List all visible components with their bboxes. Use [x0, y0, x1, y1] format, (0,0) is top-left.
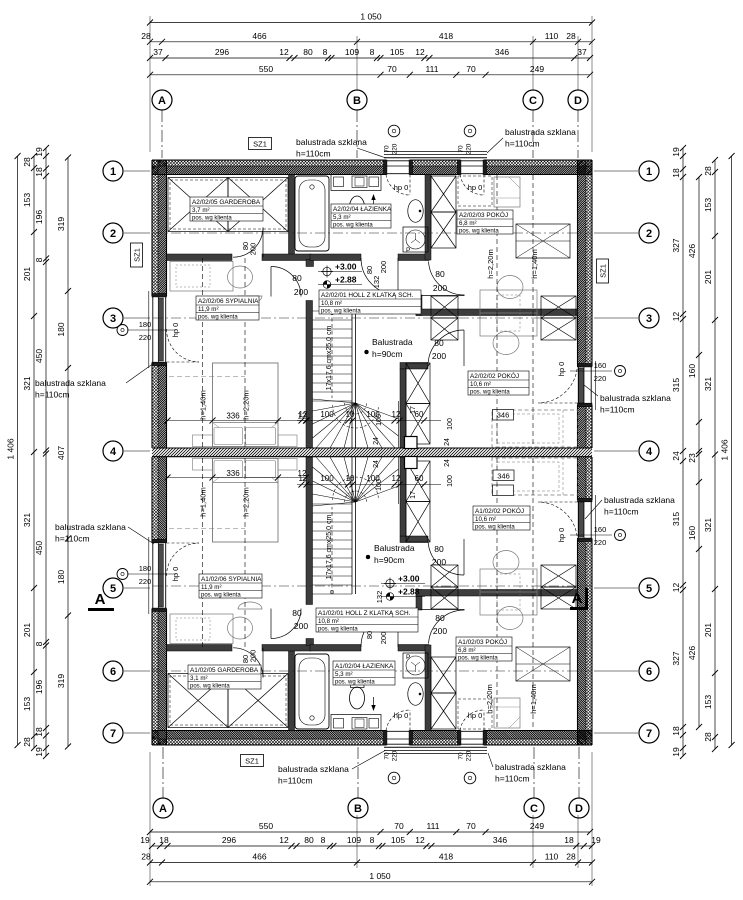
svg-text:220: 220 — [466, 143, 473, 154]
svg-text:70: 70 — [384, 752, 391, 760]
svg-text:18: 18 — [671, 726, 681, 736]
svg-text:3,7 m²: 3,7 m² — [192, 207, 210, 214]
wall H2 below bathroom(l) — [262, 254, 311, 261]
roof line x=533 upper — [532, 175, 534, 447]
right col A — [682, 148, 684, 756]
door D0 garderoba leaf+arc — [232, 227, 262, 257]
svg-text:10,6 m²: 10,6 m² — [475, 516, 496, 523]
label A2/02/06 SYPIALNIA — [196, 296, 259, 320]
win marker O2 bottom — [464, 772, 476, 784]
bed sypialnia + nightstands — [213, 363, 279, 447]
svg-text:D: D — [574, 95, 582, 107]
svg-text:70: 70 — [458, 752, 465, 760]
svg-text:80: 80 — [292, 273, 302, 283]
svg-text:8: 8 — [370, 835, 375, 845]
svg-text:24: 24 — [373, 437, 380, 445]
roof line x=497 upper — [496, 175, 498, 447]
svg-text:296: 296 — [215, 47, 229, 57]
svg-text:418: 418 — [439, 852, 453, 862]
wall H4 hall/room02 — [400, 363, 428, 370]
axis 3 line — [153, 317, 591, 319]
right door swing — [538, 364, 578, 403]
bottom extension lines — [149, 752, 151, 886]
unit A1 mirrored geometry — [149, 457, 596, 753]
svg-text:A: A — [159, 803, 167, 815]
svg-text:24: 24 — [671, 451, 681, 461]
bottom dim row 1 — [150, 831, 590, 833]
party wall pilaster upper — [405, 437, 418, 449]
svg-text:pos. wg klienta: pos. wg klienta — [470, 390, 510, 396]
svg-text:550: 550 — [259, 821, 273, 831]
top dim row 2 — [150, 41, 592, 43]
svg-text:12: 12 — [671, 312, 681, 322]
svg-text:SZ1: SZ1 — [599, 264, 608, 278]
svg-text:321: 321 — [703, 518, 713, 532]
left door swing — [167, 329, 200, 362]
svg-text:B: B — [354, 803, 362, 815]
svg-text:28: 28 — [141, 31, 151, 41]
exterior left wall (upper) — [152, 160, 158, 296]
svg-text:346: 346 — [497, 411, 510, 420]
svg-text:70: 70 — [458, 145, 465, 153]
svg-text:80: 80 — [434, 544, 444, 554]
svg-text:4: 4 — [646, 446, 653, 458]
room02 wardrobe right X — [541, 296, 576, 318]
svg-text:A2/02/06 SYPIALNIA: A2/02/06 SYPIALNIA — [198, 298, 259, 305]
svg-text:5,3 m²: 5,3 m² — [333, 214, 351, 221]
svg-text:100: 100 — [376, 414, 383, 426]
svg-text:pos. wg klienta: pos. wg klienta — [201, 593, 241, 599]
label A2/02/03 POKOJ — [457, 210, 513, 234]
svg-text:balustrada szklana: balustrada szklana — [495, 762, 566, 772]
label A1/02/04 LAZIENKA — [333, 661, 395, 685]
label A2/02/04 LAZIENKA — [331, 204, 391, 228]
svg-text:balustrada szklana: balustrada szklana — [604, 495, 675, 505]
svg-text:160: 160 — [687, 526, 697, 540]
svg-text:hp 0: hp 0 — [394, 711, 409, 720]
svg-text:60: 60 — [415, 474, 424, 483]
svg-text:pos. wg klienta: pos. wg klienta — [458, 656, 498, 662]
window O1 top — [386, 160, 410, 175]
svg-text:+3.00: +3.00 — [398, 574, 420, 584]
svg-text:426: 426 — [687, 646, 697, 660]
svg-text:pos. wg klienta: pos. wg klienta — [321, 309, 361, 315]
svg-text:336: 336 — [226, 469, 240, 478]
roof line x=497 lower — [496, 458, 498, 730]
wall V3 stair/room02 — [400, 369, 406, 448]
svg-text:153: 153 — [703, 198, 713, 212]
svg-text:19: 19 — [34, 747, 44, 757]
svg-text:28: 28 — [703, 732, 713, 742]
svg-text:450: 450 — [34, 349, 44, 363]
svg-text:315: 315 — [671, 512, 681, 526]
svg-text:11,9 m²: 11,9 m² — [201, 584, 222, 591]
svg-text:80: 80 — [435, 269, 445, 279]
svg-text:80: 80 — [365, 631, 374, 639]
svg-text:17x17,6 cmx25,0 cm: 17x17,6 cmx25,0 cm — [326, 326, 333, 391]
svg-text:550: 550 — [259, 64, 273, 74]
svg-text:80: 80 — [435, 613, 445, 623]
svg-text:466: 466 — [252, 852, 266, 862]
axis bubble D top — [568, 90, 588, 110]
room03 tall wardrobe X — [431, 176, 456, 212]
svg-text:1 406: 1 406 — [720, 439, 730, 461]
svg-text:pos. wg klienta: pos. wg klienta — [459, 229, 499, 235]
svg-text:pos. wg klienta: pos. wg klienta — [198, 315, 238, 321]
win marker O2 top — [464, 125, 476, 137]
svg-text:327: 327 — [671, 238, 681, 252]
svg-text:h=110cm: h=110cm — [296, 149, 331, 159]
svg-text:132: 132 — [372, 276, 381, 289]
svg-text:426: 426 — [687, 244, 697, 258]
svg-text:pos. wg klienta: pos. wg klienta — [335, 680, 375, 686]
svg-text:Balustrada: Balustrada — [374, 543, 415, 553]
bottom dim row 2 — [152, 845, 592, 847]
svg-text:160: 160 — [687, 364, 697, 378]
svg-text:5: 5 — [110, 583, 116, 595]
label A1/02/01 HOLL — [316, 608, 418, 632]
balcony balustrade lines (top) — [384, 151, 487, 153]
svg-text:346: 346 — [495, 47, 509, 57]
svg-text:12: 12 — [298, 412, 307, 421]
svg-text:hp 0: hp 0 — [557, 362, 566, 377]
svg-text:105: 105 — [391, 835, 405, 845]
svg-text:220: 220 — [392, 750, 399, 761]
top dim row 3 — [150, 57, 590, 59]
svg-text:18: 18 — [34, 167, 44, 177]
window O1 swing — [386, 175, 410, 196]
axis bubble 4 left — [103, 441, 123, 461]
svg-text:2: 2 — [646, 228, 652, 240]
svg-text:110: 110 — [545, 31, 559, 41]
axis bubble 5 right — [639, 578, 659, 598]
room03 dashed closet — [458, 176, 492, 206]
axis bubble 2 right — [639, 223, 659, 243]
svg-text:h=110cm: h=110cm — [600, 405, 635, 415]
svg-text:5: 5 — [646, 583, 652, 595]
svg-text:SZ1: SZ1 — [245, 757, 259, 766]
svg-text:70: 70 — [384, 145, 391, 153]
svg-text:pos. wg klienta: pos. wg klienta — [475, 525, 515, 531]
svg-text:A2/02/05 GARDEROBA: A2/02/05 GARDEROBA — [192, 199, 261, 206]
svg-text:28: 28 — [566, 31, 576, 41]
svg-text:220: 220 — [594, 374, 607, 383]
svg-text:18: 18 — [564, 835, 574, 845]
svg-text:201: 201 — [22, 623, 32, 637]
svg-text:201: 201 — [703, 270, 713, 284]
svg-text:12: 12 — [415, 835, 425, 845]
exterior right wall (lower) — [578, 405, 586, 448]
svg-text:h=110cm: h=110cm — [505, 139, 540, 149]
roof line x=245 lower — [244, 458, 246, 647]
svg-text:3: 3 — [110, 313, 116, 325]
svg-text:249: 249 — [530, 821, 544, 831]
top dim row 1 — [150, 22, 592, 24]
svg-text:balustrada szklana: balustrada szklana — [600, 393, 671, 403]
svg-text:pos. wg klienta: pos. wg klienta — [318, 627, 358, 633]
svg-text:12: 12 — [415, 47, 425, 57]
svg-text:80: 80 — [303, 47, 313, 57]
axis 6 line — [153, 670, 591, 672]
label A1/02/06 SYPIALNIA — [199, 574, 262, 598]
room03 wardrobe — [516, 224, 570, 258]
svg-text:P: P — [406, 247, 410, 254]
axis bubble B bottom — [348, 798, 368, 818]
axis bubble 3 left — [103, 308, 123, 328]
svg-text:105: 105 — [390, 47, 404, 57]
svg-text:+2.88: +2.88 — [335, 275, 357, 285]
svg-text:D: D — [575, 803, 583, 815]
arrow symbol — [373, 196, 375, 208]
svg-text:100: 100 — [376, 479, 383, 491]
svg-text:7: 7 — [646, 728, 652, 740]
terrace edge line right — [594, 361, 596, 410]
svg-text:Balustrada: Balustrada — [372, 337, 413, 347]
svg-text:100: 100 — [447, 475, 454, 487]
svg-text:18: 18 — [159, 835, 169, 845]
svg-text:321: 321 — [22, 376, 32, 390]
toilet — [350, 196, 365, 218]
svg-text:319: 319 — [56, 217, 66, 231]
svg-text:A2/02/02 POKÓJ: A2/02/02 POKÓJ — [470, 371, 519, 380]
svg-text:h=90cm: h=90cm — [374, 555, 404, 565]
svg-text:10,8 m²: 10,8 m² — [318, 618, 339, 625]
svg-text:200: 200 — [432, 351, 446, 361]
axis bubble 5 left — [103, 578, 123, 598]
svg-text:8: 8 — [323, 47, 328, 57]
svg-text:180: 180 — [56, 570, 66, 584]
svg-text:70: 70 — [466, 821, 476, 831]
svg-text:10,6 m²: 10,6 m² — [470, 381, 491, 388]
svg-text:h=2,20m: h=2,20m — [486, 249, 495, 278]
svg-text:37: 37 — [153, 47, 163, 57]
svg-text:19: 19 — [671, 747, 681, 757]
SZ1 bottom — [241, 755, 264, 767]
axis bubble 3 right — [639, 308, 659, 328]
svg-text:180: 180 — [139, 320, 152, 329]
svg-text:4: 4 — [110, 446, 117, 458]
svg-text:8: 8 — [34, 257, 44, 262]
svg-text:19: 19 — [140, 835, 150, 845]
svg-text:110: 110 — [545, 852, 559, 862]
svg-text:80: 80 — [304, 835, 314, 845]
svg-text:10,8 m²: 10,8 m² — [321, 300, 342, 307]
svg-text:319: 319 — [56, 674, 66, 688]
svg-text:160: 160 — [594, 361, 607, 370]
right col D (1 406) — [731, 156, 733, 745]
svg-text:336: 336 — [226, 412, 240, 421]
axis bubble 7 right — [639, 723, 659, 743]
win marker O1 bottom — [388, 772, 400, 784]
top dim row 4 — [150, 74, 590, 76]
svg-text:418: 418 — [439, 31, 453, 41]
axis bubble B top — [347, 90, 367, 110]
svg-text:180: 180 — [139, 564, 152, 573]
svg-text:80: 80 — [292, 608, 302, 618]
wall H1 below garderoba — [167, 254, 233, 261]
roof line x=202.5 lower — [202, 458, 204, 647]
axis bubble 7 left — [103, 723, 123, 743]
svg-text:153: 153 — [22, 697, 32, 711]
axis bubble C bottom — [524, 798, 544, 818]
svg-text:h=2,20m: h=2,20m — [242, 487, 251, 516]
svg-text:200: 200 — [249, 243, 258, 256]
axis bubble 6 right — [639, 661, 659, 681]
svg-text:hp 0: hp 0 — [394, 183, 409, 192]
svg-text:SZ1: SZ1 — [133, 248, 142, 262]
svg-text:201: 201 — [703, 623, 713, 637]
room03 desk — [480, 290, 537, 313]
label A2/02/01 HOLL — [319, 290, 421, 314]
svg-text:220: 220 — [392, 143, 399, 154]
label A2/02/05 GARDEROBA — [190, 197, 263, 221]
label A2/02/02 POKOJ — [468, 371, 529, 395]
svg-text:450: 450 — [34, 541, 44, 555]
door D2 hall-bathroom — [361, 258, 398, 295]
svg-text:12: 12 — [279, 835, 289, 845]
svg-text:70: 70 — [394, 821, 404, 831]
dressing chair — [228, 266, 253, 288]
svg-text:A2/02/03 POKÓJ: A2/02/03 POKÓJ — [459, 210, 508, 219]
svg-text:28: 28 — [566, 852, 576, 862]
svg-text:C: C — [529, 95, 537, 107]
svg-text:296: 296 — [222, 835, 236, 845]
svg-text:220: 220 — [466, 750, 473, 761]
wall V1 garderoba/bathroom — [289, 175, 295, 261]
svg-text:17x17,6 cmx25,0 cm: 17x17,6 cmx25,0 cm — [326, 515, 333, 580]
svg-text:12: 12 — [279, 47, 289, 57]
svg-text:466: 466 — [252, 31, 266, 41]
axis bubble 1 right — [639, 161, 659, 181]
svg-text:249: 249 — [530, 64, 544, 74]
svg-text:19: 19 — [591, 835, 601, 845]
room03 chair — [497, 276, 523, 299]
svg-text:3,1 m²: 3,1 m² — [190, 675, 208, 682]
svg-text:19: 19 — [34, 147, 44, 157]
svg-text:200: 200 — [294, 621, 308, 631]
svg-text:201: 201 — [22, 267, 32, 281]
win marker O1 top — [388, 125, 400, 137]
svg-text:6: 6 — [646, 666, 652, 678]
svg-text:balustrada szklana: balustrada szklana — [278, 764, 349, 774]
svg-text:109: 109 — [347, 835, 361, 845]
label A1/02/02 POKOJ — [473, 506, 530, 530]
svg-text:10: 10 — [346, 410, 355, 419]
svg-text:h=1,40m: h=1,40m — [529, 684, 538, 713]
room03 desk top — [494, 177, 520, 207]
svg-text:70: 70 — [466, 64, 476, 74]
wall V4 bathroom/room03 — [425, 175, 431, 261]
party wall pilaster lower — [405, 457, 418, 469]
axis bubble 2 left — [103, 223, 123, 243]
svg-text:2: 2 — [110, 228, 116, 240]
bottom dim row 3 — [150, 862, 592, 864]
svg-text:100: 100 — [447, 418, 454, 430]
svg-text:11,9 m²: 11,9 m² — [198, 306, 219, 313]
terrace edge line left — [148, 291, 150, 368]
svg-text:132: 132 — [375, 591, 384, 604]
346 box lower bed — [493, 470, 514, 481]
room02 wardrobe left X — [431, 296, 458, 318]
stair walk line — [331, 311, 333, 398]
window O2 swing — [460, 175, 484, 196]
svg-text:153: 153 — [703, 695, 713, 709]
svg-text:A1/02/03 POKÓJ: A1/02/03 POKÓJ — [458, 637, 507, 646]
exterior top wall (left of window 1) — [152, 160, 386, 166]
svg-text:6,8 m²: 6,8 m² — [458, 647, 476, 654]
wall H2c hall/room03 — [398, 254, 429, 261]
party wall (axis 4) — [152, 448, 592, 457]
svg-text:1 050: 1 050 — [369, 871, 391, 881]
svg-text:180: 180 — [56, 322, 66, 336]
svg-text:220: 220 — [139, 577, 152, 586]
left col 4 — [67, 158, 69, 747]
svg-text:h=90cm: h=90cm — [372, 349, 402, 359]
svg-text:220: 220 — [594, 538, 607, 547]
svg-text:12: 12 — [392, 474, 401, 483]
svg-text:+3.00: +3.00 — [335, 262, 357, 272]
svg-text:153: 153 — [22, 193, 32, 207]
wall V5 stub — [416, 295, 422, 316]
axis bubble 1 left — [103, 161, 123, 181]
svg-text:23: 23 — [687, 453, 697, 463]
wall H3 desks wall — [416, 309, 578, 316]
svg-text:A1/02/01 HOLL Z KLATKĄ SCH.: A1/02/01 HOLL Z KLATKĄ SCH. — [318, 610, 411, 617]
svg-text:200: 200 — [433, 626, 447, 636]
svg-text:111: 111 — [426, 64, 439, 74]
right col C — [714, 160, 716, 749]
svg-text:6,8 m²: 6,8 m² — [459, 220, 477, 227]
bottom dim row 4 — [150, 881, 592, 883]
balcony door left (180/220 glazing) — [152, 296, 167, 363]
svg-text:8: 8 — [321, 835, 326, 845]
exterior top wall (right of window 2) — [484, 160, 592, 166]
svg-text:hp 0: hp 0 — [468, 183, 483, 192]
svg-text:balustrada szklana: balustrada szklana — [55, 522, 126, 532]
garderoba wardrobe X-band — [168, 178, 228, 232]
axis bubble A top — [152, 90, 172, 110]
axis 5 line — [153, 585, 591, 587]
left col 3 — [45, 148, 47, 756]
svg-text:pos. wg klienta: pos. wg klienta — [190, 684, 230, 690]
svg-text:7: 7 — [110, 728, 116, 740]
svg-text:A: A — [158, 95, 166, 107]
svg-text:407: 407 — [56, 446, 66, 460]
svg-text:17: 17 — [410, 491, 417, 499]
svg-text:h=1,40m: h=1,40m — [199, 390, 208, 419]
svg-text:28: 28 — [703, 166, 713, 176]
stair treads upper flight — [313, 310, 353, 312]
svg-text:24: 24 — [373, 460, 380, 468]
axis bubble 6 left — [103, 661, 123, 681]
vanity counter — [331, 175, 381, 191]
svg-text:h=110cm: h=110cm — [35, 390, 70, 400]
svg-text:A1/02/06 SYPIALNIA: A1/02/06 SYPIALNIA — [201, 576, 262, 583]
svg-text:346: 346 — [493, 835, 507, 845]
svg-text:24: 24 — [444, 438, 451, 446]
label A1/02/05 GARDEROBA — [188, 665, 261, 689]
svg-text:70: 70 — [387, 64, 397, 74]
svg-text:A1/02/04 ŁAZIENKA: A1/02/04 ŁAZIENKA — [335, 663, 394, 670]
svg-text:1 050: 1 050 — [360, 12, 382, 22]
window O2 top — [460, 160, 484, 175]
svg-text:B: B — [353, 95, 361, 107]
door D1 hall-sypialnia — [271, 295, 301, 297]
svg-text:17: 17 — [410, 406, 417, 414]
basin oval — [408, 200, 423, 223]
svg-text:24: 24 — [444, 459, 451, 467]
svg-text:h=2,20m: h=2,20m — [242, 390, 251, 419]
